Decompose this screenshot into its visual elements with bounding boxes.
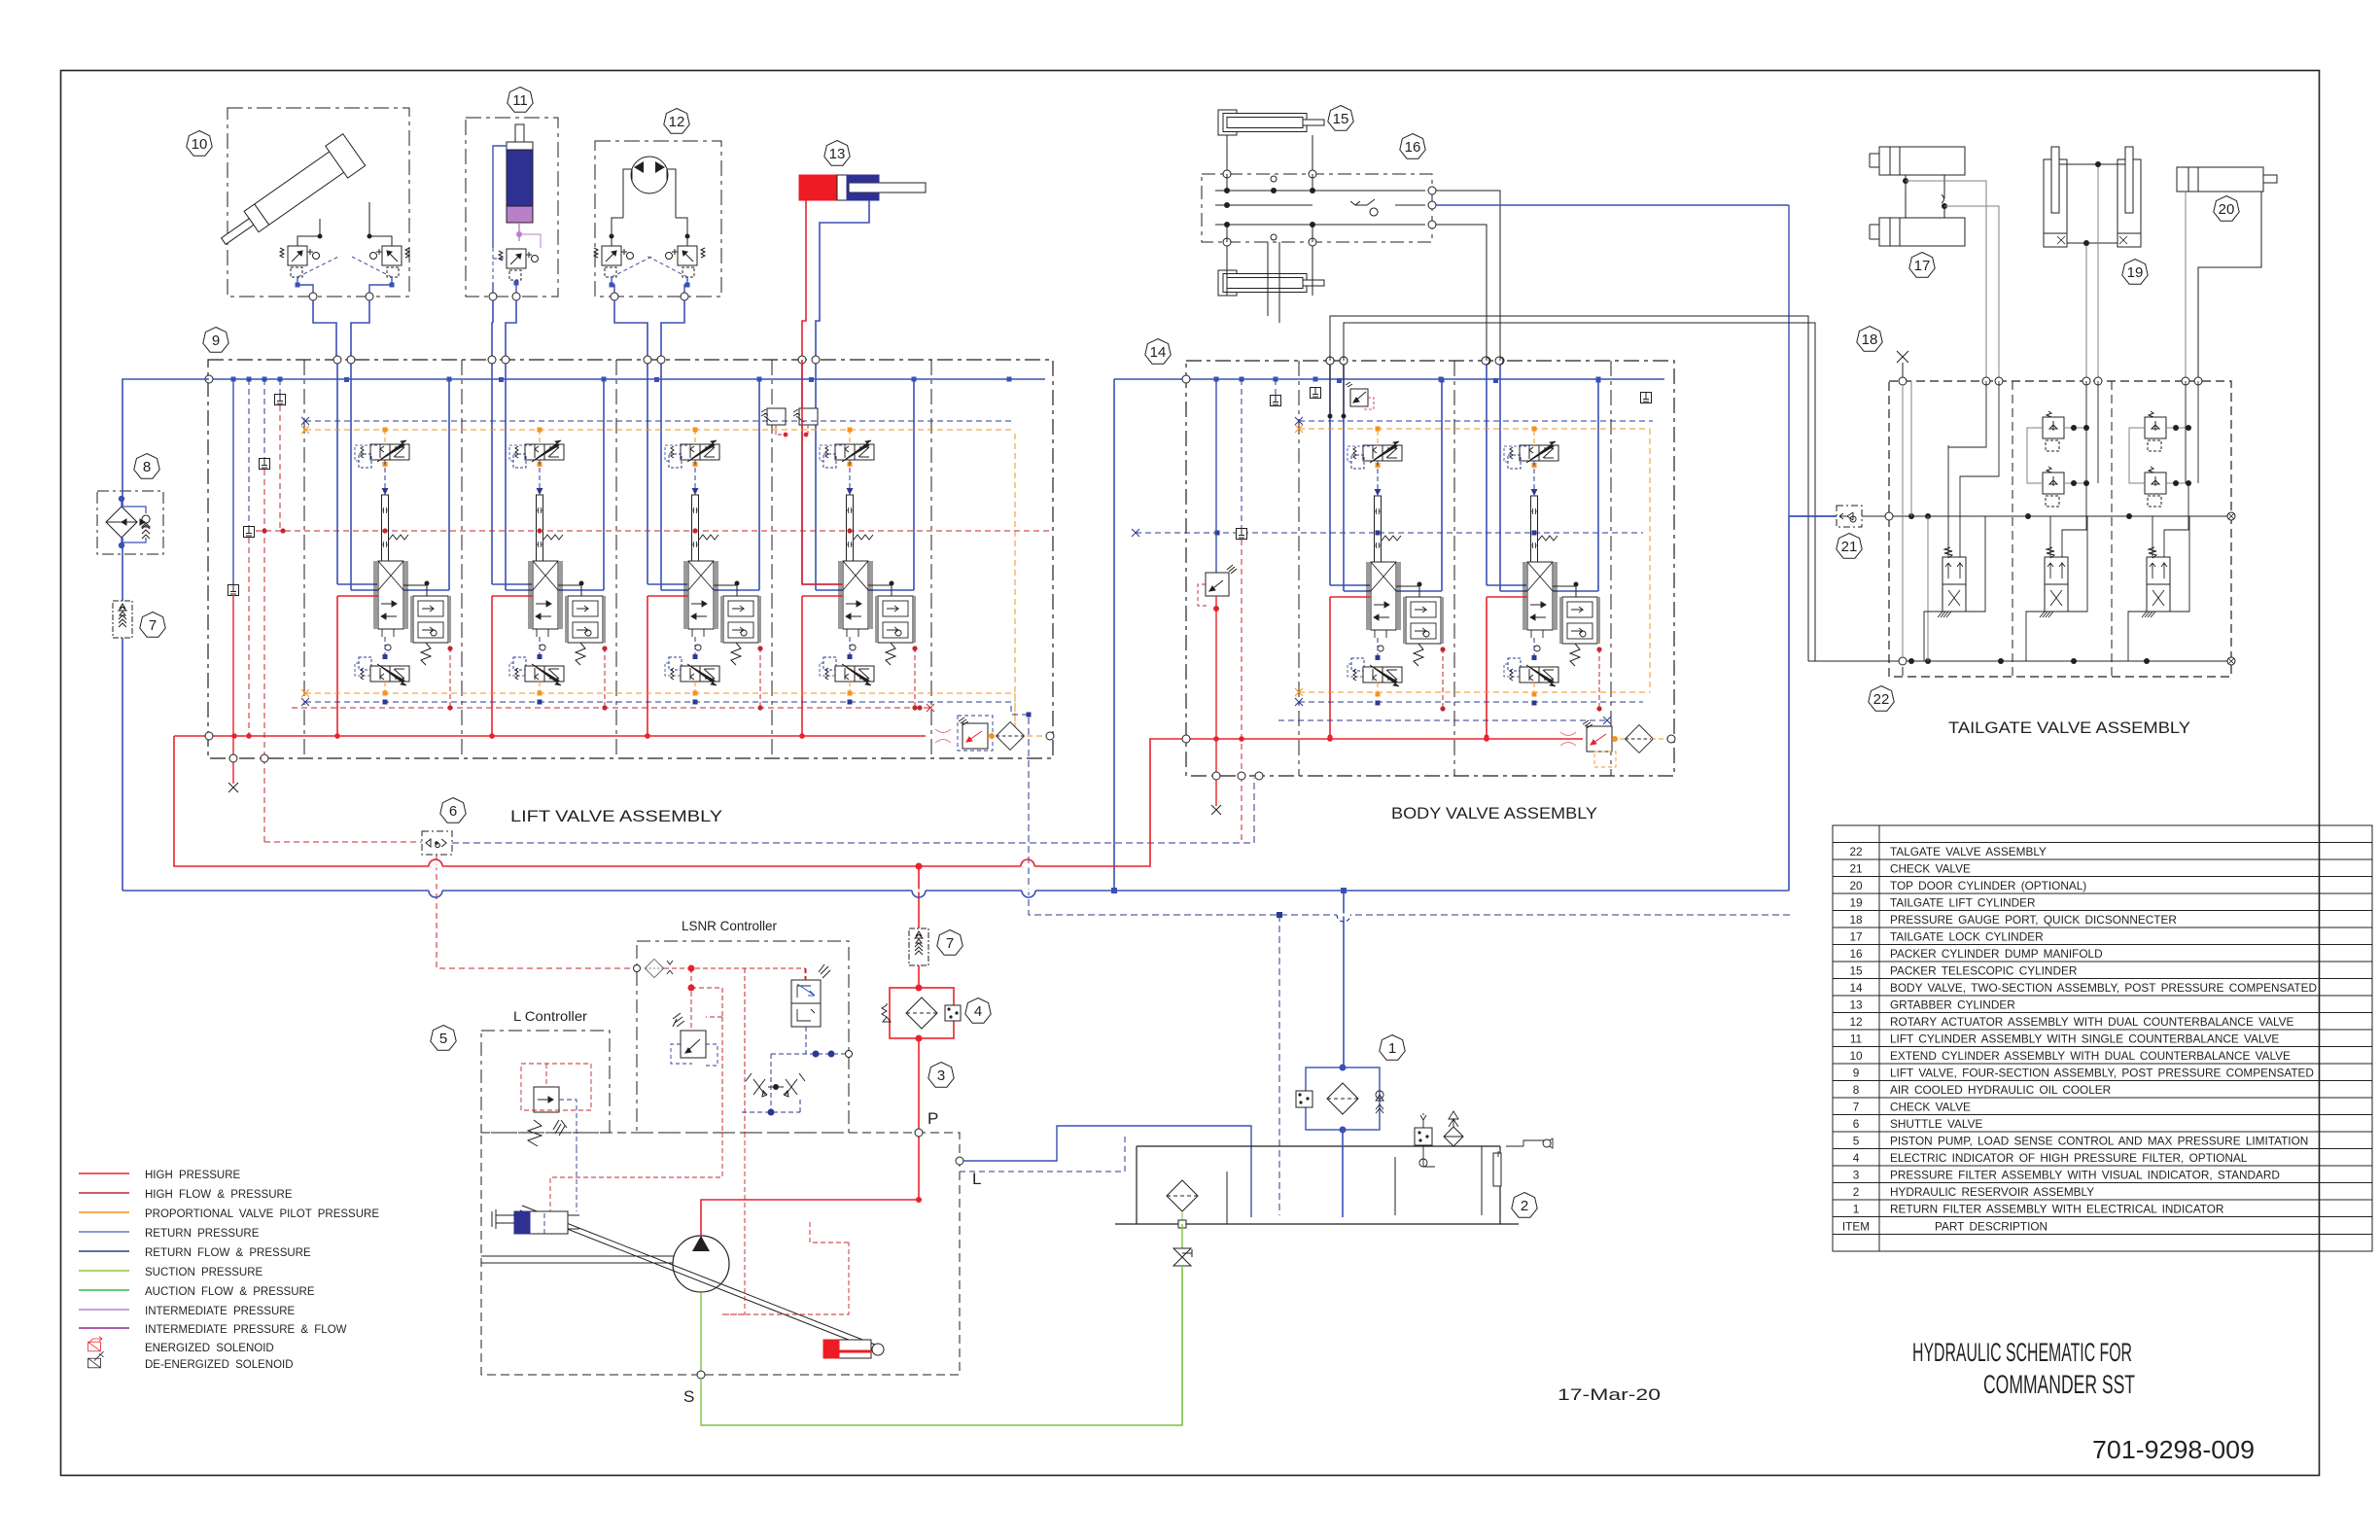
wire CB to ports: [297, 277, 392, 285]
check valve 21: [1837, 506, 1862, 527]
plugged marks body: [1560, 732, 1576, 746]
svg-text:16: 16: [1849, 947, 1863, 961]
svg-text:2: 2: [1521, 1198, 1528, 1214]
svg-text:19: 19: [1849, 896, 1862, 910]
svg-text:12: 12: [669, 114, 685, 130]
piston pump: [673, 1236, 729, 1292]
counterbalance valve CB10b: [370, 246, 410, 277]
svg-text:LSNR Controller: LSNR Controller: [682, 918, 777, 933]
label 9: [203, 328, 228, 353]
svg-text:15: 15: [1333, 111, 1349, 127]
manifold internal wires: [1215, 191, 1425, 225]
blue riser body return: [1113, 379, 1115, 891]
wire shuttle right dashed return: [452, 778, 1254, 843]
svg-text:PROPORTIONAL VALVE PILOT PRESS: PROPORTIONAL VALVE PILOT PRESSURE: [145, 1208, 379, 1220]
label 5: [431, 1026, 456, 1051]
wire shuttle to LSNR: [437, 855, 633, 968]
extend cylinder assembly box 10: [212, 108, 409, 356]
svg-text:CHECK VALVE: CHECK VALVE: [1890, 862, 1971, 876]
svg-text:14: 14: [1150, 344, 1167, 361]
svg-text:INTERMEDIATE PRESSURE: INTERMEDIATE PRESSURE: [145, 1306, 296, 1317]
pump suction wire: [700, 1292, 702, 1375]
wire box9 return to cooler: [122, 379, 209, 891]
blue lower dashed bus body: [1299, 701, 1643, 703]
svg-text:PISTON PUMP, LOAD SENSE CONTRO: PISTON PUMP, LOAD SENSE CONTROL AND MAX …: [1890, 1135, 2308, 1148]
svg-text:9: 9: [1853, 1067, 1860, 1080]
orange lower dashed bus: [305, 693, 1015, 734]
svg-text:21: 21: [1841, 539, 1858, 555]
body valve assembly box 14: [1186, 361, 1674, 776]
tailgate bottom bus: [1808, 660, 2231, 662]
svg-text:HYDRAULIC SCHEMATIC FOR: HYDRAULIC SCHEMATIC FOR: [1912, 1338, 2132, 1367]
svg-text:20: 20: [2219, 201, 2235, 218]
counterbalance valve CB10a: [280, 246, 320, 277]
packer cylinder dump manifold 16: [1202, 170, 1436, 246]
counterbalance valve CB12b: [666, 246, 706, 277]
pressure filter assembly 3: [882, 985, 961, 1042]
bottom ports body: [1212, 772, 1220, 780]
orange pilot pressure dashed bus: [305, 430, 1015, 734]
svg-text:13: 13: [1849, 998, 1863, 1012]
svg-text:9: 9: [212, 332, 220, 349]
label 19: [2122, 260, 2148, 285]
lift cylinder assembly box 11: [466, 118, 558, 356]
wire CB11 to ports: [493, 248, 507, 283]
wires cyl20 to tailgate assembly: [2185, 192, 2187, 381]
blue lower dashed bus: [305, 702, 1029, 715]
section divider wires: [1299, 361, 1611, 776]
svg-text:3: 3: [937, 1067, 945, 1084]
wire crossing bumps: [429, 859, 1350, 922]
wires cyl17 to tailgate assembly: [1906, 181, 1999, 381]
svg-text:11: 11: [1850, 1032, 1862, 1046]
legend suction flow: [79, 1289, 129, 1291]
legend high flow: [79, 1192, 129, 1194]
label 20: [2214, 196, 2239, 222]
valve section 1: [333, 356, 453, 739]
tailgate valve assembly box 22: [1889, 381, 2231, 677]
swash plate: [520, 1206, 875, 1349]
manifold check valve: [1350, 199, 1378, 216]
L controller valve: [534, 1087, 559, 1112]
label 11: [507, 87, 533, 113]
svg-text:ITEM: ITEM: [1842, 1220, 1870, 1234]
tank shutoff ball valve: [1181, 1224, 1183, 1248]
counterbalance valve CB11: [499, 249, 539, 280]
label 8: [134, 454, 159, 479]
svg-text:17: 17: [1914, 258, 1931, 274]
blue LS dashed bus body: [1136, 532, 1643, 534]
wire cyl13 base to lift section4 (blue): [816, 200, 869, 360]
tank top fittings: [1415, 1128, 1432, 1145]
counterbalance valve CB12a: [594, 246, 634, 277]
svg-text:RETURN FLOW & PRESSURE: RETURN FLOW & PRESSURE: [145, 1247, 311, 1259]
CB squares sec2: [2043, 411, 2064, 451]
bias cylinder: [823, 1340, 871, 1358]
svg-text:LIFT VALVE, FOUR-SECTION ASSEM: LIFT VALVE, FOUR-SECTION ASSEMBLY, POST …: [1890, 1067, 2314, 1080]
svg-text:17-Mar-20: 17-Mar-20: [1557, 1385, 1661, 1404]
gray internal drop wires: [1903, 381, 1928, 661]
svg-text:701-9298-009: 701-9298-009: [2092, 1435, 2255, 1464]
legend suction pressure: [79, 1270, 129, 1272]
pump drive shaft: [481, 1256, 676, 1263]
wire motor to CB valves: [612, 169, 687, 236]
legend return flow: [79, 1250, 129, 1252]
svg-text:11: 11: [512, 92, 528, 109]
piston pump box 5: [481, 1133, 960, 1375]
LSNR flow controls: [746, 1073, 805, 1097]
svg-text:18: 18: [1849, 913, 1863, 927]
red LS dashed bus: [246, 530, 1050, 532]
wire relief to outlet port (orange): [988, 735, 1046, 737]
svg-text:2: 2: [1853, 1185, 1860, 1199]
legend de-energized solenoid symbol: [88, 1351, 104, 1368]
check valve 7: [113, 601, 132, 638]
legend intermediate pressure: [79, 1309, 129, 1311]
svg-text:L Controller: L Controller: [513, 1008, 587, 1024]
svg-text:PACKER TELESCOPIC CYLINDER: PACKER TELESCOPIC CYLINDER: [1890, 964, 2077, 978]
top ports body: [1326, 357, 1334, 365]
top door cylinder 20: [2177, 167, 2277, 192]
small relief top: [1346, 382, 1374, 409]
outlet relief valve body: [1587, 726, 1612, 752]
label 6: [440, 798, 466, 823]
svg-text:7: 7: [149, 617, 157, 634]
pressure reducing valves section 4: [761, 408, 818, 437]
extend cylinder (angled): [212, 134, 365, 258]
label 17: [1909, 253, 1935, 278]
svg-text:18: 18: [1862, 332, 1878, 348]
svg-text:INTERMEDIATE PRESSURE & FLOW: INTERMEDIATE PRESSURE & FLOW: [145, 1324, 347, 1336]
label 15: [1328, 106, 1353, 131]
svg-text:12: 12: [1849, 1015, 1862, 1029]
svg-text:LIFT VALVE ASSEMBLY: LIFT VALVE ASSEMBLY: [510, 807, 722, 825]
red main supply wire: [174, 736, 1182, 866]
wire box12 to lift section3: [614, 300, 684, 356]
wire manifold to body valve (upper): [1436, 191, 1500, 361]
svg-text:BODY VALVE, TWO-SECTION ASSEMB: BODY VALVE, TWO-SECTION ASSEMBLY, POST P…: [1890, 981, 2317, 995]
label 7: [140, 612, 165, 638]
wire manifold return to tailgate: [1436, 205, 1789, 516]
svg-text:17: 17: [1849, 930, 1862, 944]
svg-text:L: L: [972, 1170, 981, 1188]
label 12: [664, 109, 689, 134]
svg-text:7: 7: [946, 935, 954, 952]
svg-text:15: 15: [1849, 964, 1863, 978]
svg-text:8: 8: [143, 459, 151, 475]
shuttle valve 6: [422, 831, 452, 855]
wires cyl15 to manifold: [1227, 135, 1312, 296]
svg-text:8: 8: [1853, 1083, 1860, 1097]
blue main return wire: [122, 516, 1837, 891]
svg-text:TAILGATE LOCK CYLINDER: TAILGATE LOCK CYLINDER: [1890, 930, 2044, 944]
wire return into filter1 and tank: [1343, 891, 1344, 1217]
svg-text:10: 10: [1849, 1049, 1863, 1063]
svg-text:GRTABBER CYLINDER: GRTABBER CYLINDER: [1890, 998, 2015, 1012]
blue return bus body: [1114, 378, 1664, 380]
valve section 5: [1326, 357, 1446, 740]
section divider wires: [304, 360, 931, 758]
left cascade body: [1215, 379, 1217, 573]
L controller box: [481, 1031, 610, 1133]
svg-text:TOP DOOR CYLINDER (OPTIONAL): TOP DOOR CYLINDER (OPTIONAL): [1890, 879, 2086, 892]
tailgate mid supply bus: [1889, 515, 2231, 517]
blue pilot return dashed bus body: [1299, 420, 1653, 422]
svg-text:1: 1: [1388, 1040, 1396, 1057]
tailgate section 1 valve: [1924, 381, 1999, 661]
svg-text:ENERGIZED SOLENOID: ENERGIZED SOLENOID: [145, 1343, 274, 1354]
wire return to check21: [1790, 515, 1837, 517]
svg-text:5: 5: [1853, 1135, 1860, 1148]
svg-text:22: 22: [1873, 691, 1890, 708]
wire body valve to tailgate lift (pair): [1330, 316, 1815, 661]
LSNR red dashed wires: [691, 968, 805, 1133]
svg-text:6: 6: [1853, 1117, 1860, 1131]
svg-text:PRESSURE GAUGE PORT, QUICK DIC: PRESSURE GAUGE PORT, QUICK DICSONNECTER: [1890, 913, 2177, 927]
valve section 2: [488, 356, 608, 739]
blue mid-low dashed bus body: [1278, 719, 1607, 721]
label 10: [187, 131, 212, 157]
servo cylinder: [514, 1211, 568, 1234]
svg-text:PART DESCRIPTION: PART DESCRIPTION: [1935, 1220, 2047, 1234]
svg-text:TAILGATE VALVE ASSEMBLY: TAILGATE VALVE ASSEMBLY: [1948, 718, 2190, 737]
svg-text:20: 20: [1849, 879, 1863, 892]
svg-text:3: 3: [1853, 1169, 1860, 1182]
red supply bus: [174, 735, 926, 737]
svg-text:7: 7: [1853, 1101, 1860, 1114]
outlet filter: [997, 722, 1025, 751]
label 14: [1145, 339, 1171, 365]
wire manifold to tailgate pair drops: [1268, 242, 1279, 323]
packer telescopic cylinder 15 (upper): [1218, 110, 1324, 135]
svg-text:22: 22: [1849, 845, 1862, 858]
packer telescopic cylinder 15 (lower): [1218, 270, 1324, 296]
legend return pressure: [79, 1231, 129, 1233]
pilot cross wires: [297, 256, 392, 277]
svg-text:HIGH PRESSURE: HIGH PRESSURE: [145, 1170, 241, 1181]
L drain port: [956, 1157, 963, 1165]
orange pilot dashed bus body: [1299, 429, 1650, 692]
tailgate lift cylinder 19: [2044, 147, 2141, 247]
return filter assembly 1: [1296, 1065, 1383, 1134]
orange lower dashed bus body: [1299, 691, 1650, 693]
pump outlet wire: [701, 1133, 919, 1236]
svg-text:AUCTION FLOW & PRESSURE: AUCTION FLOW & PRESSURE: [145, 1286, 315, 1298]
svg-text:PRESSURE FILTER ASSEMBLY WITH: PRESSURE FILTER ASSEMBLY WITH VISUAL IND…: [1890, 1169, 2280, 1182]
wire cyl13 rod to lift section4 (red): [802, 200, 806, 360]
CB squares sec3: [2145, 411, 2166, 451]
tailgate section 2 valve: [2026, 381, 2098, 661]
svg-text:21: 21: [1849, 862, 1862, 876]
outlet filter body: [1626, 725, 1654, 753]
svg-text:COMMANDER SST: COMMANDER SST: [1983, 1370, 2135, 1399]
blue pilot return dashed bus: [305, 420, 1011, 422]
legend energized solenoid symbol: [88, 1337, 102, 1351]
svg-text:16: 16: [1405, 139, 1421, 156]
air cooled oil cooler 8: [97, 491, 163, 554]
hydraulic reservoir assembly 2: [1115, 1111, 1553, 1228]
wire filter3 to P port: [918, 1038, 920, 1131]
tailgate section 3 valve: [2128, 381, 2200, 661]
plugged outlet marks: [935, 729, 951, 743]
svg-text:TAILGATE LIFT CYLINDER: TAILGATE LIFT CYLINDER: [1890, 896, 2036, 910]
svg-text:HIGH FLOW & PRESSURE: HIGH FLOW & PRESSURE: [145, 1189, 293, 1201]
svg-text:SUCTION PRESSURE: SUCTION PRESSURE: [145, 1267, 263, 1278]
legend high pressure: [79, 1172, 129, 1174]
check valve 7 (pump line): [909, 928, 928, 965]
svg-text:TALGATE VALVE ASSEMBLY: TALGATE VALVE ASSEMBLY: [1890, 845, 2047, 858]
pilot relief valve body inlet: [1206, 573, 1229, 596]
wire cyl11 rod side: [493, 146, 507, 248]
tailgate lock cylinder 17: [1870, 147, 1965, 246]
LS entry port: [634, 965, 641, 972]
wire lift LS to shuttle: [264, 841, 422, 843]
lift cylinder 11: [515, 124, 524, 144]
wire P riser: [918, 866, 920, 988]
wires cyl19 to tailgate assembly: [2086, 167, 2098, 381]
svg-text:EXTEND CYLINDER ASSEMBLY WITH: EXTEND CYLINDER ASSEMBLY WITH DUAL COUNT…: [1890, 1049, 2291, 1063]
svg-text:4: 4: [974, 1003, 982, 1020]
svg-text:S: S: [683, 1387, 694, 1406]
suction strainer: [1167, 1180, 1198, 1211]
wire L to tank: [963, 1126, 1251, 1217]
red work line section 4: [802, 360, 843, 584]
pump control dashed wires: [550, 1133, 849, 1314]
valve section 3: [644, 356, 763, 739]
tailgate top ports: [1899, 377, 2202, 385]
rotary actuator assembly box 12: [594, 141, 721, 356]
svg-text:10: 10: [192, 136, 208, 153]
svg-text:HYDRAULIC RESERVOIR ASSEMBLY: HYDRAULIC RESERVOIR ASSEMBLY: [1890, 1185, 2094, 1199]
inlet relief valve: [962, 723, 988, 749]
suction wire to tank: [701, 1269, 1182, 1425]
svg-text:6: 6: [449, 803, 457, 820]
parts table: [1833, 825, 2372, 1251]
gauge port wires left cascade: [232, 379, 234, 585]
svg-text:PACKER CYLINDER DUMP MANIFOLD: PACKER CYLINDER DUMP MANIFOLD: [1890, 947, 2103, 961]
wire cylinder10 to CB valves: [320, 202, 369, 236]
label 22: [1869, 686, 1894, 712]
svg-text:13: 13: [829, 146, 846, 162]
grabber cylinder 13: [799, 175, 926, 200]
svg-text:ELECTRIC INDICATOR OF HIGH PRE: ELECTRIC INDICATOR OF HIGH PRESSURE FILT…: [1890, 1151, 2248, 1165]
svg-text:CHECK VALVE: CHECK VALVE: [1890, 1101, 1971, 1114]
svg-text:ROTARY ACTUATOR ASSEMBLY WITH: ROTARY ACTUATOR ASSEMBLY WITH DUAL COUNT…: [1890, 1015, 2294, 1029]
label 16: [1400, 134, 1425, 159]
red dot junctions: [916, 1197, 922, 1203]
svg-text:DE-ENERGIZED SOLENOID: DE-ENERGIZED SOLENOID: [145, 1359, 294, 1371]
svg-text:RETURN FILTER ASSEMBLY WITH EL: RETURN FILTER ASSEMBLY WITH ELECTRICAL I…: [1890, 1203, 2223, 1216]
label 13: [824, 141, 850, 166]
purple pilot wire: [518, 223, 520, 241]
wire box10 to lift section1: [313, 300, 369, 356]
svg-text:1: 1: [1853, 1203, 1860, 1216]
LSNR blue dashed wires: [742, 1027, 849, 1112]
lift valve assembly box 9: [208, 360, 1053, 758]
pilot cross wires: [612, 256, 687, 277]
svg-text:AIR COOLED HYDRAULIC OIL COOLE: AIR COOLED HYDRAULIC OIL COOLER: [1890, 1083, 2111, 1097]
red supply bus body: [1186, 738, 1583, 740]
wire box11 to lift section2: [492, 300, 516, 356]
rotary actuator motor: [631, 157, 668, 193]
legend: [79, 1173, 129, 1328]
LSNR controller box: [637, 941, 849, 1133]
valve section 6: [1483, 357, 1602, 740]
svg-text:14: 14: [1849, 981, 1863, 995]
pump case drain dashed: [960, 1133, 1125, 1172]
LSNR relief valve: [681, 1031, 706, 1058]
svg-text:SHUTTLE VALVE: SHUTTLE VALVE: [1890, 1117, 1982, 1131]
LSNR 2/2 valve: [791, 980, 821, 1003]
svg-text:LIFT CYLINDER ASSEMBLY WITH SI: LIFT CYLINDER ASSEMBLY WITH SINGLE COUNT…: [1890, 1032, 2279, 1046]
legend intermediate flow: [79, 1327, 129, 1329]
blue LS/drain dashed wire: [1029, 717, 1790, 915]
svg-text:5: 5: [439, 1031, 447, 1047]
blue return bus: [209, 378, 1045, 380]
svg-text:RETURN PRESSURE: RETURN PRESSURE: [145, 1228, 260, 1240]
legend prop pilot: [79, 1211, 129, 1213]
svg-text:19: 19: [2127, 264, 2144, 281]
svg-text:4: 4: [1853, 1151, 1860, 1165]
svg-text:P: P: [927, 1109, 938, 1128]
valve section 4: [798, 356, 918, 739]
pressure gauge port 18: [1897, 351, 1908, 381]
drain to tank dashed wire: [1278, 915, 1280, 1215]
red LS lower dashed bus: [292, 707, 930, 709]
svg-text:BODY VALVE ASSEMBLY: BODY VALVE ASSEMBLY: [1391, 804, 1597, 822]
